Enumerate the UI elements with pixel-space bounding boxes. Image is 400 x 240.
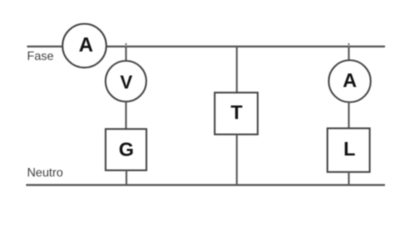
svg-text:Neutro: Neutro <box>27 166 63 180</box>
box G (generator) <box>106 129 147 170</box>
svg-text:T: T <box>231 102 243 124</box>
wire: L box to Neutro rail <box>348 172 350 185</box>
svg-text:Fase: Fase <box>27 49 54 63</box>
wire: right ammeter to L box <box>348 102 350 128</box>
node: junction stub above rail at voltmeter branch <box>125 43 127 47</box>
box T (transformer) <box>215 93 258 135</box>
ammeter A (right, load branch) <box>329 60 371 102</box>
svg-text:L: L <box>344 138 356 160</box>
wire: Neutro bottom rail <box>26 184 385 186</box>
wire: Fase top rail <box>27 46 385 48</box>
node: junction stub above rail at right ammeter branch <box>348 43 350 47</box>
svg-text:V: V <box>120 71 133 92</box>
box L (load) <box>327 128 369 172</box>
wire: T box to Neutro rail <box>236 135 238 186</box>
wire: voltmeter to G box <box>125 102 127 129</box>
voltmeter V <box>106 61 147 102</box>
wire: top rail to voltmeter <box>125 47 127 63</box>
svg-text:A: A <box>79 34 93 56</box>
wire: G box to Neutro rail <box>125 170 127 185</box>
svg-text:A: A <box>343 70 357 92</box>
ammeter A (left, in series on Fase rail) <box>63 24 107 68</box>
wire: top rail to T box <box>236 47 238 93</box>
svg-text:G: G <box>119 139 134 161</box>
wire: top rail to right ammeter <box>348 47 350 62</box>
